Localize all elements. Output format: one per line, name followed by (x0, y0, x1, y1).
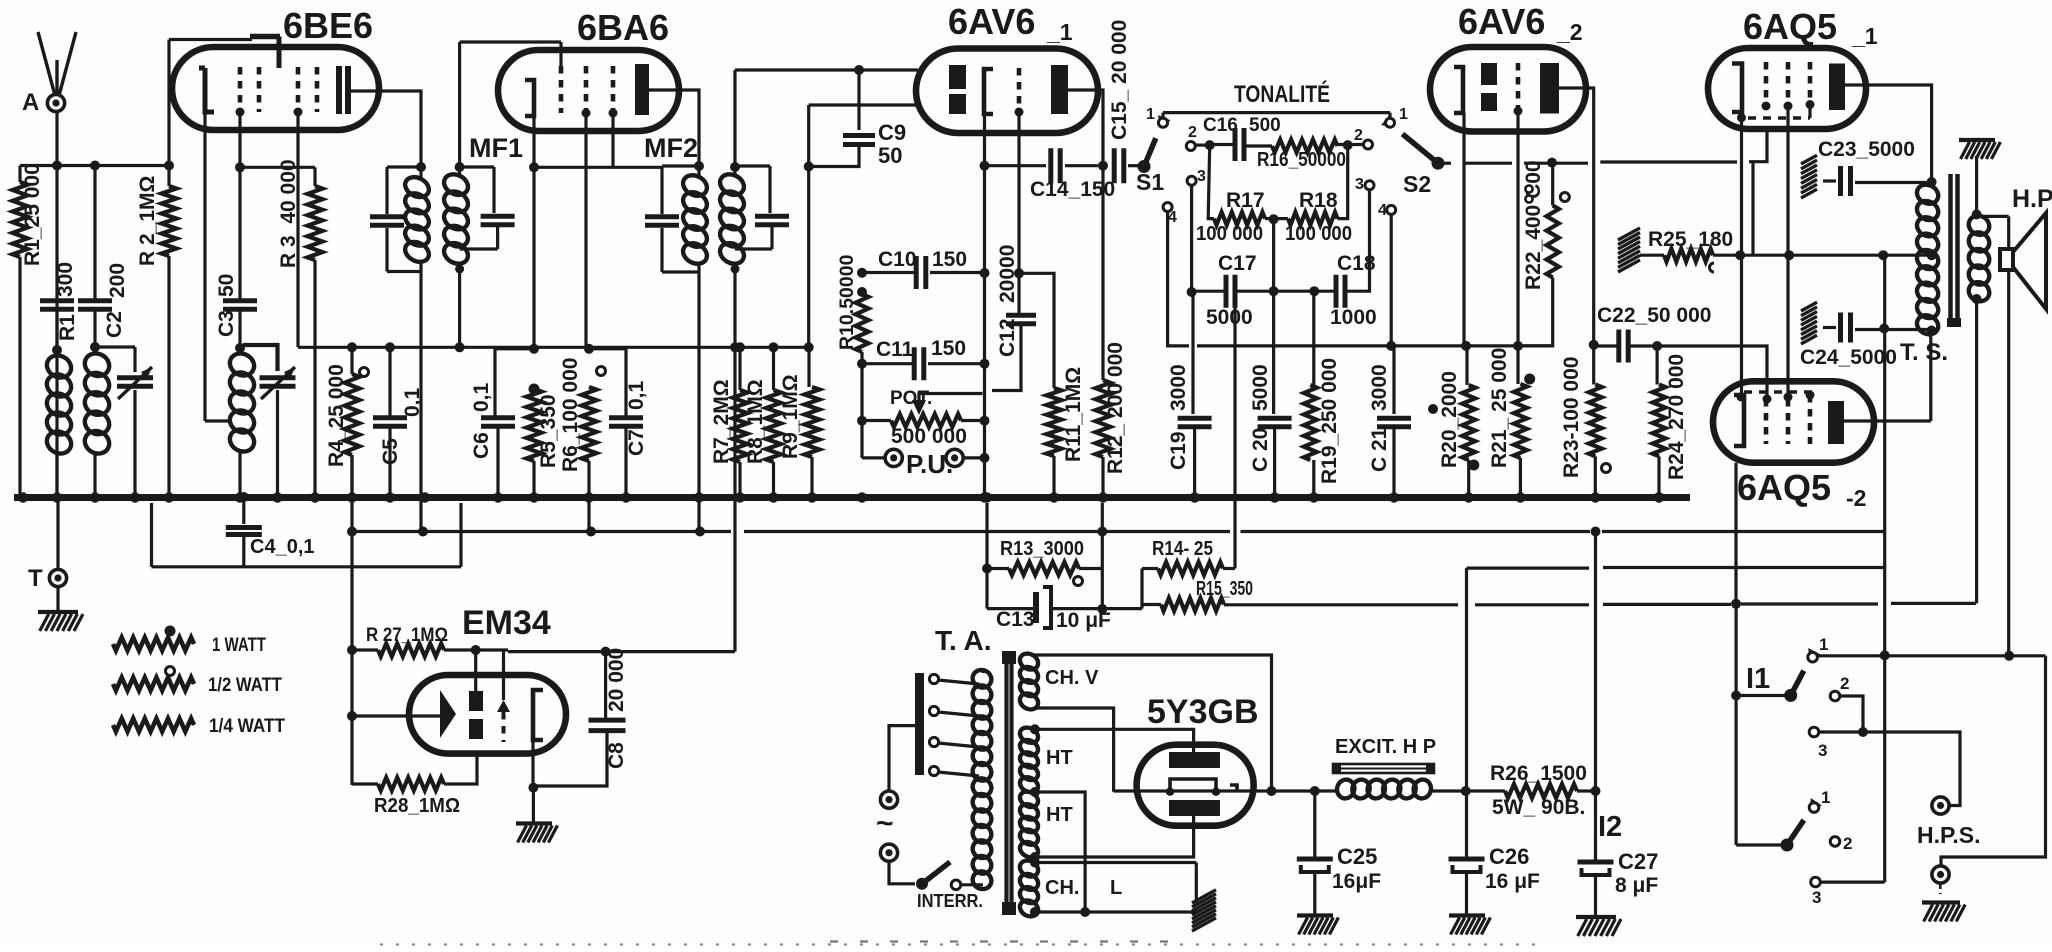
wire CHV top (1031, 655, 1272, 791)
wire 6AQ5_1 plate to TS (1845, 85, 1932, 180)
capacitor C27 8uF (1591, 786, 1601, 796)
I2 contact 2 (1830, 837, 1840, 847)
svg-text:R7_2MΩ: R7_2MΩ (710, 379, 733, 464)
wire I1 c1 to speaker line (1818, 654, 2046, 657)
svg-text:50: 50 (215, 274, 238, 297)
svg-text:CH.: CH. (1045, 877, 1079, 899)
svg-text:2: 2 (1188, 124, 1197, 141)
svg-text:S1: S1 (1136, 169, 1164, 195)
wire 6BE6 plate to MF1 (348, 91, 421, 167)
wire vertical into EM34 (474, 650, 477, 691)
capacitor C1 300 + antenna coil (40, 301, 74, 309)
EM34 grid (497, 700, 510, 712)
wire EM34 left lead (352, 714, 440, 717)
svg-text:C9: C9 (878, 120, 906, 145)
svg-text:3: 3 (1355, 176, 1364, 193)
wire detector rail (809, 103, 918, 106)
svg-text:MF2: MF2 (644, 133, 698, 163)
transformer MF1 secondary (440, 170, 471, 199)
switch S1 (1138, 160, 1151, 173)
wire screens B+ midline (1740, 254, 1928, 257)
S1 contact 4 (1163, 203, 1172, 212)
tube 6BE6 (172, 47, 379, 130)
resistor R7 2M (738, 347, 741, 390)
capacitor C12 20000 (1006, 315, 1036, 324)
speaker HP (1977, 215, 2009, 218)
svg-text:150: 150 (932, 248, 967, 271)
S2 contact 1 (1386, 118, 1395, 127)
resistor R19 250000 (1312, 291, 1315, 385)
svg-text:P.U.: P.U. (906, 449, 953, 479)
wire mains bottom to INTERR (889, 862, 915, 884)
tube 6AQ5_1 (1708, 48, 1866, 129)
capacitor C24 5000 (1801, 302, 1817, 311)
transformer TS secondary (1965, 212, 1992, 238)
bus dots (18, 492, 28, 502)
svg-text:R26_1500: R26_1500 (1490, 762, 1587, 785)
6BE6 plate (339, 66, 348, 114)
resistor R14 25 (1140, 569, 1143, 609)
tube 5Y3GB (1137, 745, 1254, 826)
6AV6_1 cathode (984, 69, 993, 114)
svg-text:R4_25 000: R4_25 000 (325, 364, 348, 467)
capacitor C16 500 (1235, 128, 1244, 161)
svg-text:R21_ 25 000: R21_ 25 000 (1488, 348, 1511, 468)
svg-text:3000: 3000 (1167, 364, 1190, 411)
resistor R12 200000 (1101, 166, 1104, 380)
capacitor C18 1000 (1336, 275, 1345, 308)
6AQ5_1 grids (1764, 62, 1769, 105)
capacitor C8 20000 (604, 652, 607, 718)
resistor R10 50000 (857, 287, 867, 297)
svg-text:6AV6: 6AV6 (1458, 1, 1545, 42)
wire C13 to R15 (1102, 607, 1142, 610)
svg-text:MF1: MF1 (469, 133, 523, 163)
svg-text:1: 1 (1819, 635, 1828, 654)
svg-text:5Y3GB: 5Y3GB (1147, 693, 1259, 731)
wire 6AV6_2 plate out (1559, 88, 1594, 345)
svg-text:1 WATT: 1 WATT (212, 635, 266, 656)
tube 6AV6_2 (1430, 47, 1586, 132)
svg-text:R11_1MΩ: R11_1MΩ (1062, 367, 1085, 462)
svg-text:3: 3 (1812, 888, 1821, 907)
svg-text:R9_1MΩ: R9_1MΩ (779, 374, 802, 459)
TA winding CH.L (1017, 858, 1041, 880)
terminal HPS 2 (1932, 866, 1949, 883)
svg-text:1: 1 (1146, 106, 1155, 123)
svg-text:6AQ5: 6AQ5 (1743, 6, 1837, 47)
svg-text:C17: C17 (1218, 252, 1257, 275)
S2 contact 2 (1364, 140, 1373, 149)
svg-text:_2: _2 (1556, 19, 1583, 45)
resistor R26 1500 5W (1505, 784, 1577, 798)
svg-text:T. S.: T. S. (1900, 339, 1948, 366)
capacitor C23 5000 (1801, 155, 1817, 164)
wire cathode tie rail (1740, 118, 1743, 396)
svg-text:6AV6: 6AV6 (948, 1, 1035, 42)
capacitor C9 50 (854, 65, 864, 75)
I1 contact 2 (1830, 691, 1840, 701)
ground TA (1192, 890, 1216, 903)
svg-text:3: 3 (1818, 741, 1827, 760)
wire g2 to R3 (240, 166, 315, 169)
svg-text:R16_50000: R16_50000 (1257, 149, 1346, 171)
ground bus (14, 494, 1690, 501)
wire TS sec to ground (1975, 156, 1978, 215)
capacitor C26 16uF (1465, 791, 1468, 857)
wire grid C12 rail (1017, 112, 1020, 315)
wire top-left horizontal (20, 164, 169, 167)
wire CHL taps (1030, 858, 1040, 868)
5Y3GB plate 2 (1169, 800, 1220, 816)
wire 6BA6 cathode+g3 (532, 116, 535, 167)
resistor R27 1M (378, 644, 444, 657)
capacitor C6 0,1 (495, 347, 534, 350)
resistor R24 270000 (1655, 346, 1658, 385)
EM34 deflectors (469, 691, 483, 711)
resistor R4 25000 (347, 342, 357, 352)
wire 6BA6 g2 rail (584, 113, 587, 349)
wire 6BE6 grid hat (169, 38, 252, 41)
6AQ5_2 grids (1764, 399, 1769, 444)
tube 6AV6_1 (916, 49, 1098, 134)
svg-text:500: 500 (1249, 115, 1281, 136)
wire tone top (1163, 111, 1390, 114)
6AQ5_2 cathode (1734, 395, 1744, 446)
wire HT centre tap to ground (1030, 787, 1040, 797)
wire 6AQ5_2 cathode to R15 line (1734, 463, 1737, 604)
terminal A (47, 94, 64, 111)
wire contact3 down to C17 (1190, 185, 1193, 292)
wire antenna rail (55, 112, 58, 497)
S2 contact 4 (1387, 205, 1396, 214)
TA winding CH.V (1017, 651, 1041, 673)
svg-text:EM34: EM34 (462, 604, 551, 642)
svg-text:R13_3000: R13_3000 (1000, 538, 1084, 560)
wire 6AQ5_1 grid drop (1751, 162, 1754, 256)
svg-text:R 2_1MΩ: R 2_1MΩ (136, 176, 159, 266)
svg-text:16 μF: 16 μF (1485, 870, 1540, 893)
capacitor C20 5000 (1272, 291, 1275, 414)
wire R15 line to right (1224, 603, 1458, 606)
wire MF2 sec bottom to AVC and EM34 (733, 269, 736, 347)
svg-text:C8: C8 (605, 742, 628, 769)
svg-text:~: ~ (876, 807, 894, 840)
capacitor C5 0,1 (385, 342, 395, 352)
svg-text:6BE6: 6BE6 (283, 5, 373, 46)
bus line 3 H3 (152, 565, 462, 568)
6BE6 grids (238, 67, 243, 112)
6BA6 plate (635, 64, 649, 115)
svg-text:1/2 WATT: 1/2 WATT (208, 675, 282, 696)
antenna coil L1 (43, 351, 75, 381)
resistor R6 100000 (597, 367, 606, 376)
5Y3GB plate 1 (1169, 752, 1220, 768)
svg-text:_1: _1 (1851, 23, 1878, 49)
wire C16 loop left (1208, 145, 1214, 219)
EM34 target triangle (440, 690, 456, 738)
capacitor C14 150 (985, 164, 1047, 167)
svg-text:300: 300 (54, 262, 77, 297)
wire R18 up (1338, 146, 1348, 219)
wire R27 right to grid line (444, 648, 508, 651)
capacitor C3 50 (223, 301, 257, 309)
capacitor C21 3000 (1392, 346, 1395, 414)
resistor R5 350 (529, 384, 540, 395)
wire pot left rail (860, 364, 863, 458)
ground EM34 (516, 821, 552, 825)
svg-text:2: 2 (1843, 834, 1852, 853)
svg-text:A: A (22, 89, 39, 116)
svg-text:2: 2 (1840, 674, 1849, 693)
wire to choke (1300, 789, 1332, 792)
svg-text:L: L (1110, 877, 1122, 899)
svg-text:R20_2000: R20_2000 (1438, 371, 1461, 468)
svg-text:C7: C7 (625, 429, 648, 456)
wire MF2 sec top to 6AV6 diode (733, 70, 736, 167)
wire HT2 bottom to plate2 (1030, 852, 1040, 862)
resistor R25 180 (1618, 228, 1640, 240)
capacitor C15 20000 (1098, 161, 1108, 171)
svg-text:C3: C3 (215, 310, 238, 337)
resistor R8 1M (772, 347, 775, 390)
wire C22 to 6AQ5_2 grid (1630, 344, 1657, 347)
legend 1/4 watt resistor (113, 719, 194, 732)
capacitor C4 0,1 (239, 492, 249, 502)
svg-text:5000: 5000 (1206, 306, 1253, 329)
wire 6BE6 g2 rail (238, 114, 241, 299)
capacitor C22 50000 (1589, 340, 1599, 350)
svg-text:R17: R17 (1226, 189, 1265, 212)
5Y3GB filament (1170, 779, 1237, 792)
wire HT1 top to plate (1030, 724, 1040, 734)
wire R13 left rail (985, 503, 988, 609)
svg-text:R10.50000: R10.50000 (836, 254, 858, 350)
wire mains top (889, 726, 915, 791)
resistor R17 100000 (1214, 212, 1265, 225)
svg-text:8 μF: 8 μF (1615, 874, 1658, 897)
svg-text:0,1: 0,1 (625, 380, 648, 410)
svg-text:_1: _1 (1046, 19, 1073, 45)
wire speaker down (2007, 270, 2010, 656)
svg-text:TONALITÉ: TONALITÉ (1234, 80, 1330, 108)
terminal T (56, 500, 59, 569)
6AQ5_2 plate (1828, 401, 1844, 444)
svg-text:HT: HT (1046, 804, 1073, 826)
6AV6_1 plate (1051, 65, 1068, 114)
EM34 anode bracket (533, 690, 543, 740)
svg-text:1: 1 (1399, 106, 1408, 123)
wire MF1 sec to 6BA6 grid (top) (458, 42, 461, 167)
svg-text:R22_400 C00: R22_400 C00 (1522, 160, 1545, 290)
wire 6BA6 plate to MF2 (649, 90, 699, 166)
6BA6 cathode (525, 80, 534, 116)
svg-text:6AQ5: 6AQ5 (1737, 467, 1831, 508)
6AQ5_1 plate (1829, 64, 1845, 111)
resistor R23 100000 (1589, 385, 1602, 457)
svg-text:C23_5000: C23_5000 (1818, 138, 1915, 161)
tube EM34 (409, 675, 566, 754)
svg-text:R18: R18 (1299, 189, 1338, 212)
wire EM34 left rail (350, 455, 353, 785)
svg-text:S2: S2 (1403, 171, 1431, 197)
svg-text:C15_ 20 000: C15_ 20 000 (1108, 20, 1131, 140)
svg-text:-2: -2 (1846, 485, 1866, 511)
capacitor C2 200 + coil (93, 166, 96, 300)
svg-text:I1: I1 (1746, 663, 1770, 695)
wire I1 c2 c3 tie to HPS (1840, 696, 1863, 732)
svg-text:INTERR.: INTERR. (917, 891, 983, 911)
svg-text:R12_ 200 000: R12_ 200 000 (1104, 342, 1127, 474)
svg-text:C25: C25 (1337, 844, 1377, 869)
svg-text:R23-100 000: R23-100 000 (1560, 357, 1583, 478)
tube 6AQ5_2 (1713, 381, 1874, 462)
svg-text:C19: C19 (1167, 431, 1190, 470)
wire MF1 primary B+ drop (419, 272, 422, 532)
svg-text:150: 150 (931, 337, 966, 360)
transformer MF2 secondary (716, 170, 747, 199)
wire 6AQ5_2 plate out (1844, 419, 1931, 422)
svg-text:6BA6: 6BA6 (577, 7, 669, 48)
antenna (38, 32, 57, 103)
svg-text:R8_1MΩ: R8_1MΩ (744, 379, 767, 464)
6AV6_2 cathode (1454, 67, 1463, 113)
svg-text:C27: C27 (1618, 849, 1658, 874)
wire B+ up to H4 (1461, 786, 1471, 796)
wire HPS2 ground (1939, 884, 1942, 894)
wire R17R18 mid down (1272, 219, 1275, 291)
wire TS sec down to R15 line (1975, 299, 1978, 603)
resistor R20 2000 (1465, 346, 1468, 385)
6AV6_1 diode plates (949, 65, 966, 89)
scan artifact dots bottom edge (380, 943, 1545, 945)
wire S2 to grids line L1 (1444, 162, 1451, 165)
svg-text:4: 4 (1378, 202, 1387, 219)
svg-text:C2: C2 (103, 311, 126, 338)
S1 contact 2 (1186, 142, 1195, 151)
TA winding HT2 (1017, 789, 1040, 810)
6AV6_2 grid (1516, 63, 1521, 111)
svg-text:HT: HT (1046, 747, 1073, 769)
svg-text:R28_1MΩ: R28_1MΩ (374, 795, 460, 817)
svg-text:C4_0,1: C4_0,1 (250, 536, 315, 558)
wire TS bottom to plate2 (1929, 331, 1932, 422)
svg-text:1/4 WATT: 1/4 WATT (209, 716, 285, 737)
capacitor C10 150 (862, 271, 916, 274)
svg-text:R1: R1 (56, 314, 79, 341)
svg-text:500 000: 500 000 (891, 425, 967, 448)
6AV6_2 diode plates (1481, 63, 1497, 85)
svg-text:50: 50 (878, 143, 902, 168)
wire R14 right rail (1233, 306, 1236, 569)
svg-text:C10: C10 (878, 248, 917, 271)
svg-text:R5_350: R5_350 (537, 394, 560, 468)
wire filament B+ line (1114, 789, 1300, 792)
svg-text:2: 2 (1354, 127, 1363, 144)
svg-text:EXCIT. H P: EXCIT. H P (1335, 736, 1436, 758)
svg-text:100 000: 100 000 (1285, 223, 1352, 245)
capacitor C25 16uF (1313, 791, 1316, 857)
wire I2 c3 to Vb (1821, 880, 1885, 883)
svg-text:C13: C13 (996, 608, 1035, 631)
wire midline drop vertical Vb (1883, 255, 1886, 882)
capacitor C11 150 (857, 359, 867, 369)
terminals P.U. (885, 449, 902, 466)
svg-text:C12: C12 (996, 318, 1019, 357)
wire C12 to pot wiper (919, 394, 983, 405)
capacitor C19 3000 (1191, 292, 1194, 414)
svg-text:3: 3 (1197, 168, 1206, 185)
svg-text:C26: C26 (1489, 844, 1529, 869)
svg-text:1: 1 (1821, 788, 1830, 807)
TA primary coil (970, 667, 995, 691)
two small circles (1525, 185, 1532, 192)
svg-text:H.P.: H.P. (2012, 185, 2052, 213)
svg-text:R 27_1MΩ: R 27_1MΩ (366, 625, 448, 646)
terminal HPS 1 (1932, 797, 1949, 814)
ground T (38, 610, 78, 614)
bus line 2 / screen B+ rail H2 (352, 530, 731, 533)
svg-text:200: 200 (106, 263, 129, 298)
svg-text:H.P.S.: H.P.S. (1917, 822, 1981, 848)
svg-text:3000: 3000 (1368, 364, 1391, 411)
svg-text:R24_270 000: R24_270 000 (1665, 354, 1688, 480)
transformer TS primary (1927, 177, 1937, 187)
trimmer capacitor CV2 (243, 345, 278, 371)
wire EM34 anode to ground (531, 740, 534, 788)
resistor R28 1M (378, 778, 444, 791)
TS core (1948, 174, 1953, 327)
6AV6_2 plate (1540, 63, 1559, 114)
svg-text:I2: I2 (1598, 811, 1622, 843)
TA core (1004, 652, 1008, 915)
svg-text:R14- 25: R14- 25 (1152, 538, 1213, 560)
tube 6BA6 (498, 50, 679, 131)
switch INTERR (916, 878, 928, 890)
svg-text:0,1: 0,1 (470, 382, 493, 412)
svg-text:C16: C16 (1203, 115, 1238, 136)
svg-text:4: 4 (1168, 209, 1177, 226)
S1 contact 3 (1187, 176, 1196, 185)
capacitor C17 5000 (1192, 290, 1226, 293)
svg-text:1000: 1000 (1330, 306, 1377, 329)
capacitor C7 0,1 (589, 347, 626, 350)
TA winding HT1 (1017, 725, 1040, 746)
wire 6AV6_2 cathode rail to R20 (1462, 113, 1465, 346)
I1 contact 3 (1809, 727, 1819, 737)
svg-text:5W_ 90B.: 5W_ 90B. (1492, 796, 1585, 819)
TA primary terminals (929, 674, 938, 683)
wire CHV bottom (1034, 708, 1114, 792)
resistor R13 3000 (1009, 562, 1079, 575)
svg-text:R15_350: R15_350 (1196, 578, 1253, 600)
wire R26 to C27 (1577, 789, 1596, 792)
svg-text:R1_25 000: R1_25 000 (21, 163, 44, 266)
svg-text:C24_5000: C24_5000 (1800, 346, 1897, 369)
terminal mains 1 (880, 791, 897, 808)
svg-text:C6: C6 (470, 432, 493, 459)
switch S2 (1432, 157, 1445, 170)
resistor R18 100000 (1288, 212, 1338, 225)
legend 1 watt resistor (113, 638, 194, 651)
resistor R11 1M (1019, 273, 1054, 388)
svg-text:R19_250 000: R19_250 000 (1318, 358, 1341, 484)
svg-text:T: T (28, 565, 43, 592)
svg-text:POT.: POT. (890, 388, 932, 409)
resistor R21 25000 (1514, 384, 1527, 458)
wire MF2 primary B+ drop (697, 272, 700, 532)
svg-text:20000: 20000 (996, 245, 1019, 303)
